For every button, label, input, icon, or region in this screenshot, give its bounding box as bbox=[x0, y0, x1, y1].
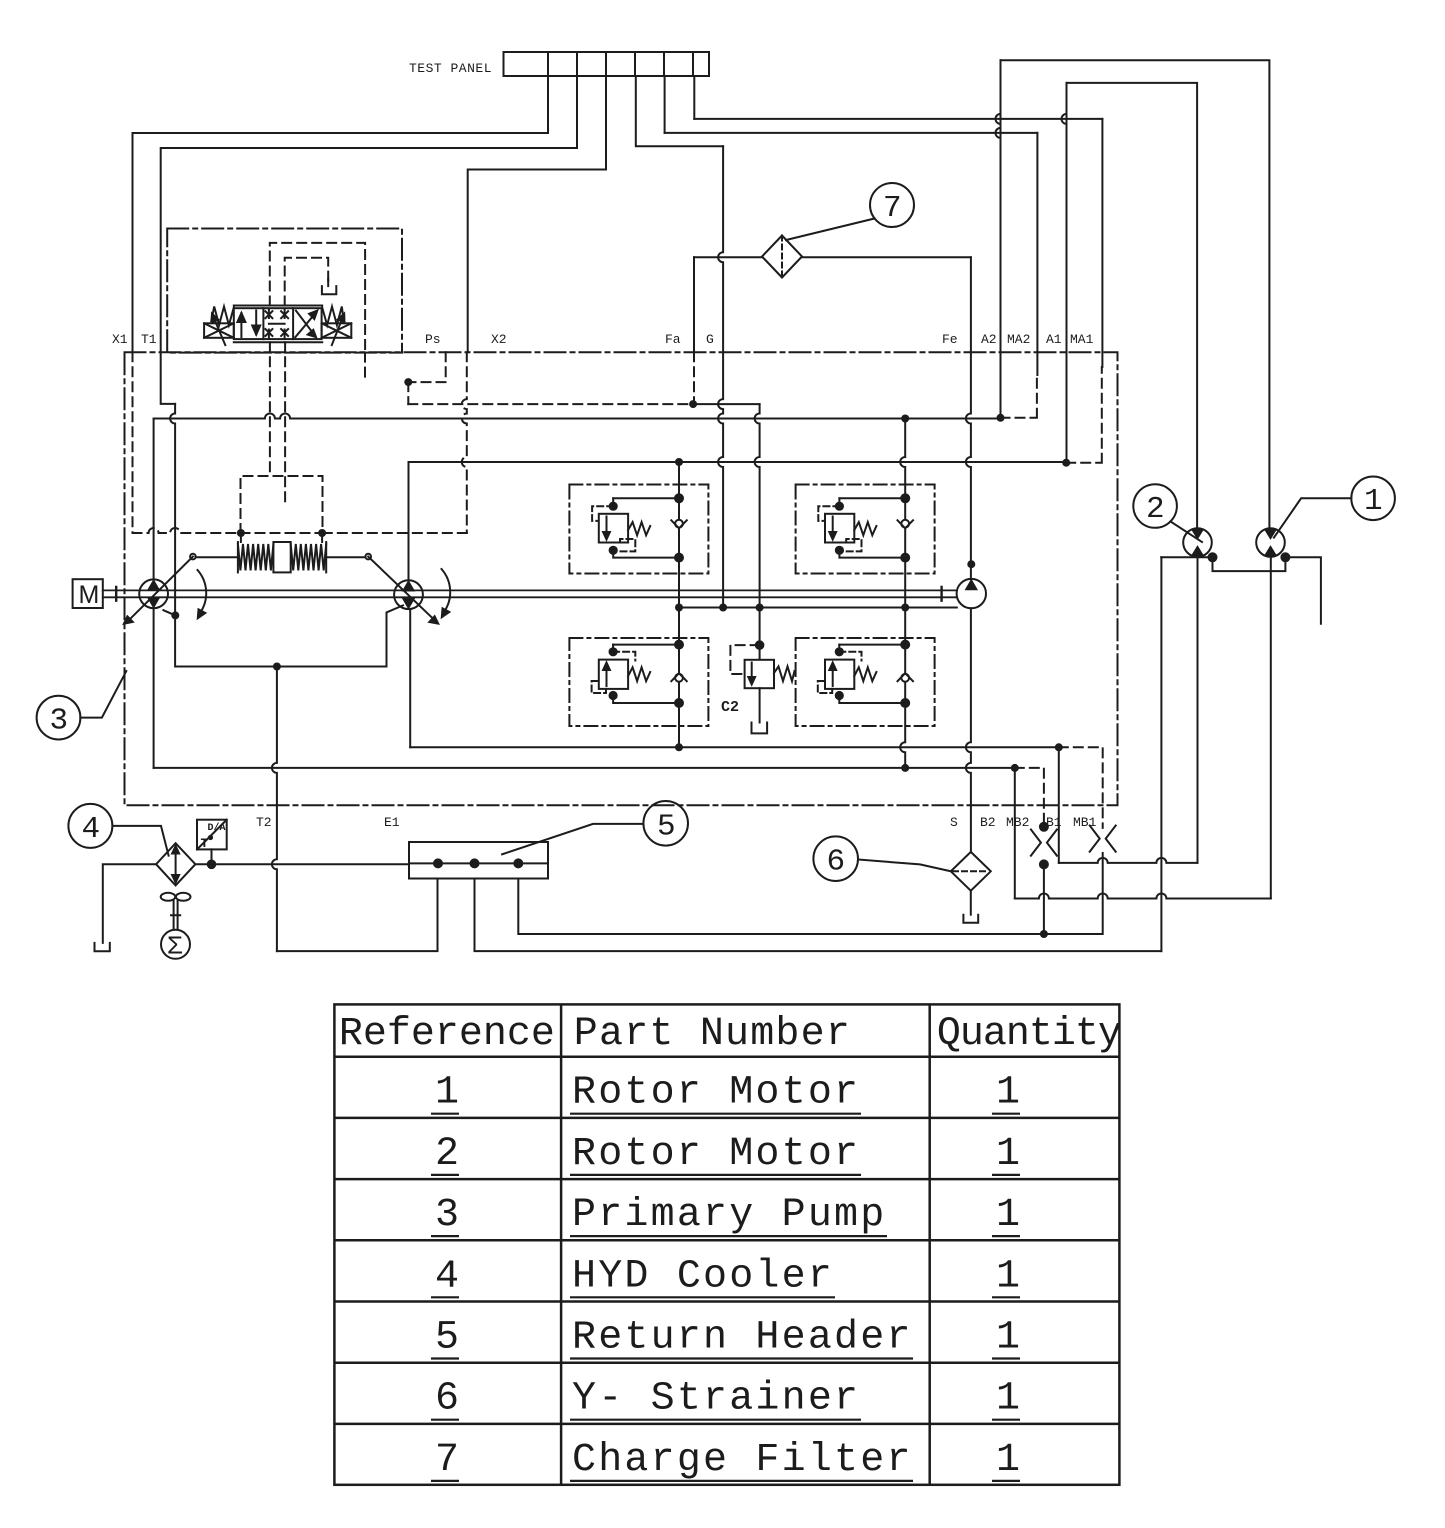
svg-text:X2: X2 bbox=[491, 332, 507, 347]
relief valve block RV4 bottom-right (dash-dot box) bbox=[796, 638, 935, 726]
solenoid valve boundary (dash-dot) bbox=[167, 229, 402, 353]
valve left position arrows bbox=[240, 313, 242, 337]
wire rail1 dashed tail to MA2 bbox=[1001, 375, 1037, 418]
test point MB2 bbox=[1031, 823, 1057, 934]
svg-text:MB1: MB1 bbox=[1073, 815, 1097, 830]
svg-text:1: 1 bbox=[996, 1071, 1020, 1116]
wire A1 (rail2 up and over to motor 2) bbox=[1062, 83, 1067, 463]
svg-text:5: 5 bbox=[435, 1316, 459, 1361]
pump1 drain diagonal bbox=[163, 610, 175, 615]
svg-text:Ps: Ps bbox=[425, 332, 441, 347]
cooler fan bbox=[161, 893, 191, 962]
test point MB1 bbox=[1044, 826, 1116, 935]
pilot line Ps (dashed) bbox=[365, 352, 446, 382]
svg-text:Rotor Motor: Rotor Motor bbox=[572, 1132, 860, 1177]
pilot line X2 (dashed) bbox=[462, 352, 467, 533]
electric motor M box bbox=[73, 579, 103, 608]
wires motor bottoms bbox=[1161, 557, 1321, 623]
test panel box bbox=[504, 52, 710, 76]
svg-text:2: 2 bbox=[1146, 492, 1165, 527]
wire X2 (test panel to port X2) bbox=[468, 76, 606, 352]
wire charge filter line (Fa-filter-Fe) bbox=[694, 256, 762, 258]
wire MA2 (test panel to gauge line MA2) bbox=[664, 76, 666, 133]
C2 pressure valve bbox=[730, 641, 794, 733]
svg-text:4: 4 bbox=[82, 812, 101, 847]
pilot line X1 (dashed) bbox=[132, 352, 134, 533]
directional solenoid valve body bbox=[204, 306, 351, 346]
valve pilot lines down (dashed) bbox=[269, 342, 271, 476]
fan drive sigma bbox=[161, 930, 190, 959]
wire Fa (solid above boundary, dashed below) bbox=[693, 257, 695, 352]
svg-text:B2: B2 bbox=[980, 815, 996, 830]
svg-text:Quantity: Quantity bbox=[937, 1012, 1121, 1057]
right spring bbox=[322, 307, 344, 326]
callout 1 bbox=[1274, 477, 1395, 538]
rotor motor 1 bbox=[1256, 528, 1285, 557]
svg-text:6: 6 bbox=[435, 1377, 459, 1422]
wire header drop 3 to MB line bbox=[518, 879, 1044, 935]
wire case drain loop under pumps bbox=[175, 605, 403, 666]
wire T1 (test panel to port T1) bbox=[161, 76, 577, 404]
pump assembly boundary (dash-dot) bbox=[125, 352, 1118, 805]
svg-text:Return Header: Return Header bbox=[572, 1316, 913, 1361]
servo spring pack bbox=[238, 542, 326, 572]
callout 5 bbox=[502, 801, 688, 854]
wire S (charge pump inlet) bbox=[966, 608, 971, 852]
valve drain dashed loop and tank bbox=[285, 258, 329, 306]
wire A2 (rail1 up and over to motor 1) bbox=[996, 60, 1001, 418]
svg-text:S: S bbox=[950, 815, 958, 830]
svg-text:5: 5 bbox=[657, 810, 676, 845]
svg-text:HYD Cooler: HYD Cooler bbox=[572, 1254, 834, 1299]
svg-text:4: 4 bbox=[435, 1254, 459, 1299]
svg-text:1: 1 bbox=[996, 1193, 1020, 1238]
wire rail pump1 top (pressure rail 1) bbox=[153, 419, 155, 580]
pump P2 (second section) bbox=[368, 557, 450, 624]
return header (item 5) bbox=[409, 842, 548, 879]
wire X1 (test panel to port X1) bbox=[133, 76, 549, 352]
junction dots bbox=[171, 378, 1070, 938]
svg-text:E1: E1 bbox=[384, 815, 400, 830]
svg-text:1: 1 bbox=[996, 1132, 1020, 1177]
svg-text:Fe: Fe bbox=[942, 332, 958, 347]
D/A temperature transducer bbox=[197, 820, 227, 868]
relief block vertical TL bbox=[678, 462, 680, 747]
svg-text:T: T bbox=[201, 836, 209, 851]
svg-text:Reference: Reference bbox=[339, 1012, 555, 1057]
callout 6 bbox=[813, 836, 950, 881]
valve right position crossed arrows bbox=[295, 315, 314, 338]
svg-text:MA1: MA1 bbox=[1070, 332, 1094, 347]
wire T1 case drain column bbox=[170, 404, 175, 616]
svg-text:Σ: Σ bbox=[167, 932, 183, 962]
callout 7 bbox=[786, 183, 914, 240]
svg-text:Primary Pump: Primary Pump bbox=[572, 1193, 886, 1238]
relief valve block RV3 bottom-left (dash-dot box) bbox=[569, 638, 708, 726]
pilot MB2 (dashed) bbox=[1015, 768, 1044, 827]
wire pump1 bottom port to B2 bbox=[153, 608, 155, 768]
pilot MB1 (dashed) bbox=[1059, 747, 1103, 828]
shaft (double line) bbox=[103, 590, 957, 597]
charge pump bbox=[957, 579, 986, 608]
tank (cooler drain) bbox=[95, 943, 110, 951]
valve pilot dashed box bbox=[270, 243, 365, 353]
Y-strainer (item 6) bbox=[951, 852, 991, 923]
table header text bbox=[339, 1012, 1121, 1483]
svg-text:D/A: D/A bbox=[208, 822, 226, 834]
svg-text:Fa: Fa bbox=[665, 332, 681, 347]
svg-text:1: 1 bbox=[435, 1071, 459, 1116]
wire cooler to tank bbox=[103, 864, 156, 943]
svg-text:X1: X1 bbox=[112, 332, 128, 347]
tank (valve drain) bbox=[322, 286, 336, 294]
svg-text:1: 1 bbox=[996, 1316, 1020, 1361]
svg-text:3: 3 bbox=[50, 704, 69, 739]
svg-text:3: 3 bbox=[435, 1193, 459, 1238]
right proportional solenoid bbox=[322, 323, 352, 338]
svg-text:MA2: MA2 bbox=[1007, 332, 1030, 347]
svg-text:C2: C2 bbox=[721, 699, 739, 716]
servo rod bbox=[196, 556, 366, 558]
svg-text:6: 6 bbox=[827, 845, 846, 880]
charge filter F1 (item 7) bbox=[762, 236, 802, 278]
pump control dashed box bbox=[241, 476, 323, 533]
wire B2 drop bbox=[1014, 768, 1016, 899]
valve center position blocked ports bbox=[269, 309, 285, 339]
svg-text:1: 1 bbox=[996, 1438, 1020, 1483]
svg-text:MB2: MB2 bbox=[1006, 815, 1029, 830]
svg-text:T1: T1 bbox=[141, 332, 157, 347]
rotor motor 2 bbox=[1183, 528, 1212, 557]
svg-text:7: 7 bbox=[883, 191, 902, 226]
wire T2 drain down to return header bbox=[272, 667, 277, 952]
svg-text:2: 2 bbox=[435, 1132, 459, 1177]
relief valve block RV1 top-left (dash-dot box) bbox=[569, 485, 708, 574]
callout 2 bbox=[1133, 484, 1202, 542]
svg-text:M: M bbox=[79, 581, 100, 609]
wire Fa junction to C2 drop bbox=[693, 403, 760, 405]
wire rail pump2 top (pressure rail 2) bbox=[408, 462, 410, 581]
svg-text:Charge Filter: Charge Filter bbox=[572, 1438, 913, 1483]
svg-text:G: G bbox=[706, 332, 714, 347]
wire pump2 bottom port to B1 bbox=[409, 609, 411, 747]
svg-text:A2: A2 bbox=[981, 332, 997, 347]
callout 3 bbox=[37, 671, 127, 739]
wire C2 drop from Fa line bbox=[755, 404, 760, 660]
wire rail2 dashed tail to MA1 bbox=[1066, 367, 1102, 463]
wire header drop 2 to motor return bbox=[475, 879, 1162, 952]
svg-text:A1: A1 bbox=[1046, 332, 1062, 347]
relief block vertical TR bbox=[900, 419, 905, 768]
svg-text:T2: T2 bbox=[256, 815, 272, 830]
HYD cooler (item 4) bbox=[156, 843, 195, 885]
callout 4 bbox=[68, 804, 168, 856]
left spring bbox=[211, 307, 234, 326]
shaft coupling ticks bbox=[116, 587, 941, 601]
svg-text:1: 1 bbox=[996, 1254, 1020, 1299]
wire motor1 bottom to B2 bbox=[1270, 557, 1272, 899]
svg-text:TEST PANEL: TEST PANEL bbox=[409, 61, 492, 76]
left proportional solenoid bbox=[204, 323, 234, 338]
wire motor2 bottom to B1 bbox=[1197, 557, 1199, 863]
wire MA1 (test panel to gauge line MA1) bbox=[693, 76, 695, 119]
svg-text:1: 1 bbox=[1364, 484, 1383, 519]
parts table bbox=[334, 1004, 1119, 1484]
svg-text:Part Number: Part Number bbox=[574, 1012, 851, 1057]
primary pump P1 bbox=[124, 557, 206, 624]
tank under C2 bbox=[752, 723, 768, 734]
wire low pressure gallery (rail 607.5) bbox=[679, 607, 957, 609]
svg-text:Rotor Motor: Rotor Motor bbox=[572, 1071, 860, 1116]
svg-text:Y- Strainer: Y- Strainer bbox=[572, 1377, 860, 1422]
wire Fe down to charge pump bbox=[966, 257, 971, 579]
relief valve block RV2 top-right (dash-dot box) bbox=[796, 485, 935, 574]
svg-text:7: 7 bbox=[435, 1438, 459, 1483]
wire G (test panel down right side) bbox=[718, 146, 723, 607]
wire motor2 left leg down to header return bbox=[1160, 557, 1162, 951]
svg-text:1: 1 bbox=[996, 1377, 1020, 1422]
wire B1 drop bbox=[1058, 747, 1060, 863]
wire cooler to header (E1 line) bbox=[195, 863, 409, 865]
servo pilot stubs bbox=[241, 533, 322, 542]
